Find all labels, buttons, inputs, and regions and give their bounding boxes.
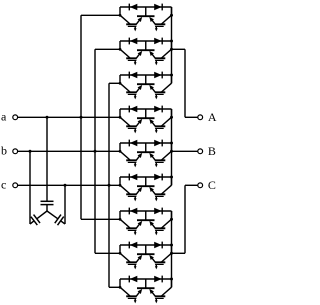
junction of capacitor branch with line c	[64, 184, 67, 187]
diode D2a (cathode to b-side)	[129, 38, 137, 45]
output terminal B	[198, 149, 203, 154]
cell SBb right corner wire	[171, 143, 173, 151]
IGBT Q3a (left)	[120, 83, 142, 99]
common-emitter node wire of cell SAb	[137, 41, 155, 50]
junction at cell 6 left corner	[119, 184, 122, 187]
wire from capacitor C1 to star point	[46, 205, 48, 211]
junction at cell 2 left corner	[119, 48, 122, 51]
junction on C bus at cell 9 rail	[170, 278, 173, 281]
junction on A bus at cell 2	[170, 48, 173, 51]
junction on B bus at cell 6 rail	[170, 176, 173, 179]
diode D5b (cathode to B-side)	[154, 140, 162, 147]
filter capacitor C2 (tilted, to phase b branch)	[30, 211, 47, 225]
bidirectional switch cell SAa (input a to output A)	[120, 4, 172, 32]
phase c distribution bus wire	[108, 83, 110, 287]
common-emitter node wire of cell SBb	[137, 143, 155, 152]
junction on A bus at cell 2 rail	[170, 40, 173, 43]
cell SBc left corner wire	[119, 177, 121, 185]
input line b wire	[18, 150, 120, 152]
cell SCc left corner wire	[119, 279, 121, 287]
stub wire from bus a to cell 1	[81, 14, 120, 16]
cell SCc top rail wire	[120, 278, 172, 280]
common-emitter node wire of cell SBc	[137, 177, 155, 186]
junction on C bus at cell 8	[170, 252, 173, 255]
junction at cell 9 left corner	[119, 286, 122, 289]
3x3 matrix converter schematic	[0, 0, 220, 305]
diode D7b (cathode to C-side)	[154, 208, 162, 215]
filter capacitor C3 (tilted, to phase c branch)	[47, 211, 65, 225]
bidirectional switch cell SAc (input c to output A)	[120, 72, 172, 100]
cell SAc left corner wire	[119, 75, 121, 83]
IGBT Q5b (right)	[149, 151, 171, 167]
IGBT Q6b (right)	[149, 185, 171, 201]
output C tap wire	[172, 185, 198, 253]
IGBT Q4a (left)	[120, 117, 142, 133]
bidirectional switch cell SCb (input b to output C)	[120, 242, 172, 270]
common-emitter node wire of cell SCb	[137, 245, 155, 254]
diode D5a (cathode to b-side)	[129, 140, 137, 147]
IGBT Q8a (left)	[120, 253, 142, 269]
stub wire from bus b to cell 8	[95, 252, 120, 254]
capacitor branch wire from line c	[64, 185, 66, 224]
junction of bus a with line a	[80, 116, 83, 119]
diode D6b (cathode to B-side)	[154, 174, 162, 181]
junction of bus b with line b	[94, 150, 97, 153]
cell SCb right corner wire	[171, 245, 173, 253]
stub wire from bus a to cell 7	[81, 218, 120, 220]
diode D1a (cathode to a-side)	[129, 4, 137, 11]
input line a wire	[18, 116, 120, 118]
junction at cell 1 left corner	[119, 14, 122, 17]
junction at cell 5 left corner	[119, 150, 122, 153]
diode D7a (cathode to a-side)	[129, 208, 137, 215]
capacitor branch wire from line a	[46, 117, 48, 201]
diode D3a (cathode to c-side)	[129, 72, 137, 79]
IGBT Q6a (left)	[120, 185, 142, 201]
IGBT Q8b (right)	[149, 253, 171, 269]
cell SAc top rail wire	[120, 74, 172, 76]
input line c wire	[18, 184, 120, 186]
bidirectional switch cell SBb (input b to output B)	[120, 140, 172, 168]
svg-text:c: c	[1, 178, 6, 192]
cell SAb top rail wire	[120, 40, 172, 42]
output A tap wire	[172, 49, 198, 117]
diode D6a (cathode to c-side)	[129, 174, 137, 181]
stub wire from bus c to cell 3	[109, 82, 120, 84]
junction on C bus at cell 7	[170, 218, 173, 221]
svg-text:a: a	[1, 110, 7, 124]
stub wire from bus b to cell 2	[95, 48, 120, 50]
IGBT Q1a (left)	[120, 15, 142, 31]
cell SCb left corner wire	[119, 245, 121, 253]
cell SBc top rail wire	[120, 176, 172, 178]
IGBT Q1b (right)	[149, 15, 171, 31]
bidirectional switch cell SCc (input c to output C)	[120, 276, 172, 304]
cell SBa left corner wire	[119, 109, 121, 117]
common-emitter node wire of cell SBa	[137, 109, 155, 118]
cell SCb top rail wire	[120, 244, 172, 246]
common-emitter node wire of cell SAa	[137, 7, 155, 16]
junction at cell 7 left corner	[119, 218, 122, 221]
cell SBb left corner wire	[119, 143, 121, 151]
common-emitter node wire of cell SCc	[137, 279, 155, 288]
junction on A bus at cell 1	[170, 14, 173, 17]
IGBT Q2b (right)	[149, 49, 171, 65]
input terminal a	[13, 115, 18, 120]
junction at cell 8 left corner	[119, 252, 122, 255]
svg-text:B: B	[208, 144, 216, 158]
cell SCc right corner wire	[171, 279, 173, 287]
output A group bus wire (right side)	[171, 7, 173, 83]
IGBT Q2a (left)	[120, 49, 142, 65]
capacitor branch wire from line b	[29, 151, 31, 224]
junction of capacitor branch with line a	[46, 116, 49, 119]
output C group bus wire (right side)	[171, 211, 173, 287]
IGBT Q7b (right)	[149, 219, 171, 235]
diode D4b (cathode to B-side)	[154, 106, 162, 113]
output terminal A	[198, 115, 203, 120]
junction on C bus at cell 8 rail	[170, 244, 173, 247]
filter capacitor C1 (horizontal plates)	[41, 201, 54, 204]
diode D8a (cathode to b-side)	[129, 242, 137, 249]
junction on B bus at cell 4	[170, 116, 173, 119]
input terminal c	[13, 183, 18, 188]
cell SAb left corner wire	[119, 41, 121, 49]
cell SBa right corner wire	[171, 109, 173, 117]
svg-text:A: A	[208, 110, 217, 124]
cell SCa right corner wire	[171, 211, 173, 219]
bidirectional switch cell SBa (input a to output B)	[120, 106, 172, 134]
IGBT Q4b (right)	[149, 117, 171, 133]
cell SBa top rail wire	[120, 108, 172, 110]
common-emitter node wire of cell SCa	[137, 211, 155, 220]
output B tap wire	[172, 150, 198, 152]
junction at cell 4 left corner	[119, 116, 122, 119]
bidirectional switch cell SAb (input b to output A)	[120, 38, 172, 66]
common-emitter node wire of cell SAc	[137, 75, 155, 84]
junction at cell 3 left corner	[119, 82, 122, 85]
cell SAb right corner wire	[171, 41, 173, 49]
junction of capacitor branch with line b	[29, 150, 32, 153]
bidirectional switch cell SBc (input c to output B)	[120, 174, 172, 202]
diode D9a (cathode to c-side)	[129, 276, 137, 283]
diode D4a (cathode to a-side)	[129, 106, 137, 113]
diode D8b (cathode to C-side)	[154, 242, 162, 249]
diode D3b (cathode to A-side)	[154, 72, 162, 79]
cell SCa left corner wire	[119, 211, 121, 219]
cell SBb top rail wire	[120, 142, 172, 144]
cell SAa left corner wire	[119, 7, 121, 15]
svg-text:b: b	[1, 144, 7, 158]
junction on B bus at cell 5 rail	[170, 142, 173, 145]
cell SAc right corner wire	[171, 75, 173, 83]
IGBT Q3b (right)	[149, 83, 171, 99]
junction on A bus at cell 3 rail	[170, 74, 173, 77]
stub wire from bus c to cell 9	[109, 286, 120, 288]
output terminal C	[198, 183, 203, 188]
bidirectional switch cell SCa (input a to output C)	[120, 208, 172, 236]
cell SAa top rail wire	[120, 6, 172, 8]
cell SAa right corner wire	[171, 7, 173, 15]
diode D1b (cathode to A-side)	[154, 4, 162, 11]
IGBT Q5a (left)	[120, 151, 142, 167]
diode D2b (cathode to A-side)	[154, 38, 162, 45]
cell SBc right corner wire	[171, 177, 173, 185]
diode D9b (cathode to C-side)	[154, 276, 162, 283]
junction of bus c with line c	[108, 184, 111, 187]
output B group bus wire (right side)	[171, 109, 173, 185]
IGBT Q7a (left)	[120, 219, 142, 235]
svg-text:C: C	[208, 178, 216, 192]
phase a distribution bus wire	[80, 15, 82, 219]
junction on B bus at cell 5	[170, 150, 173, 153]
IGBT Q9a (left)	[120, 287, 142, 303]
input terminal b	[13, 149, 18, 154]
cell SCa top rail wire	[120, 210, 172, 212]
phase b distribution bus wire	[94, 49, 96, 253]
IGBT Q9b (right)	[149, 287, 171, 303]
